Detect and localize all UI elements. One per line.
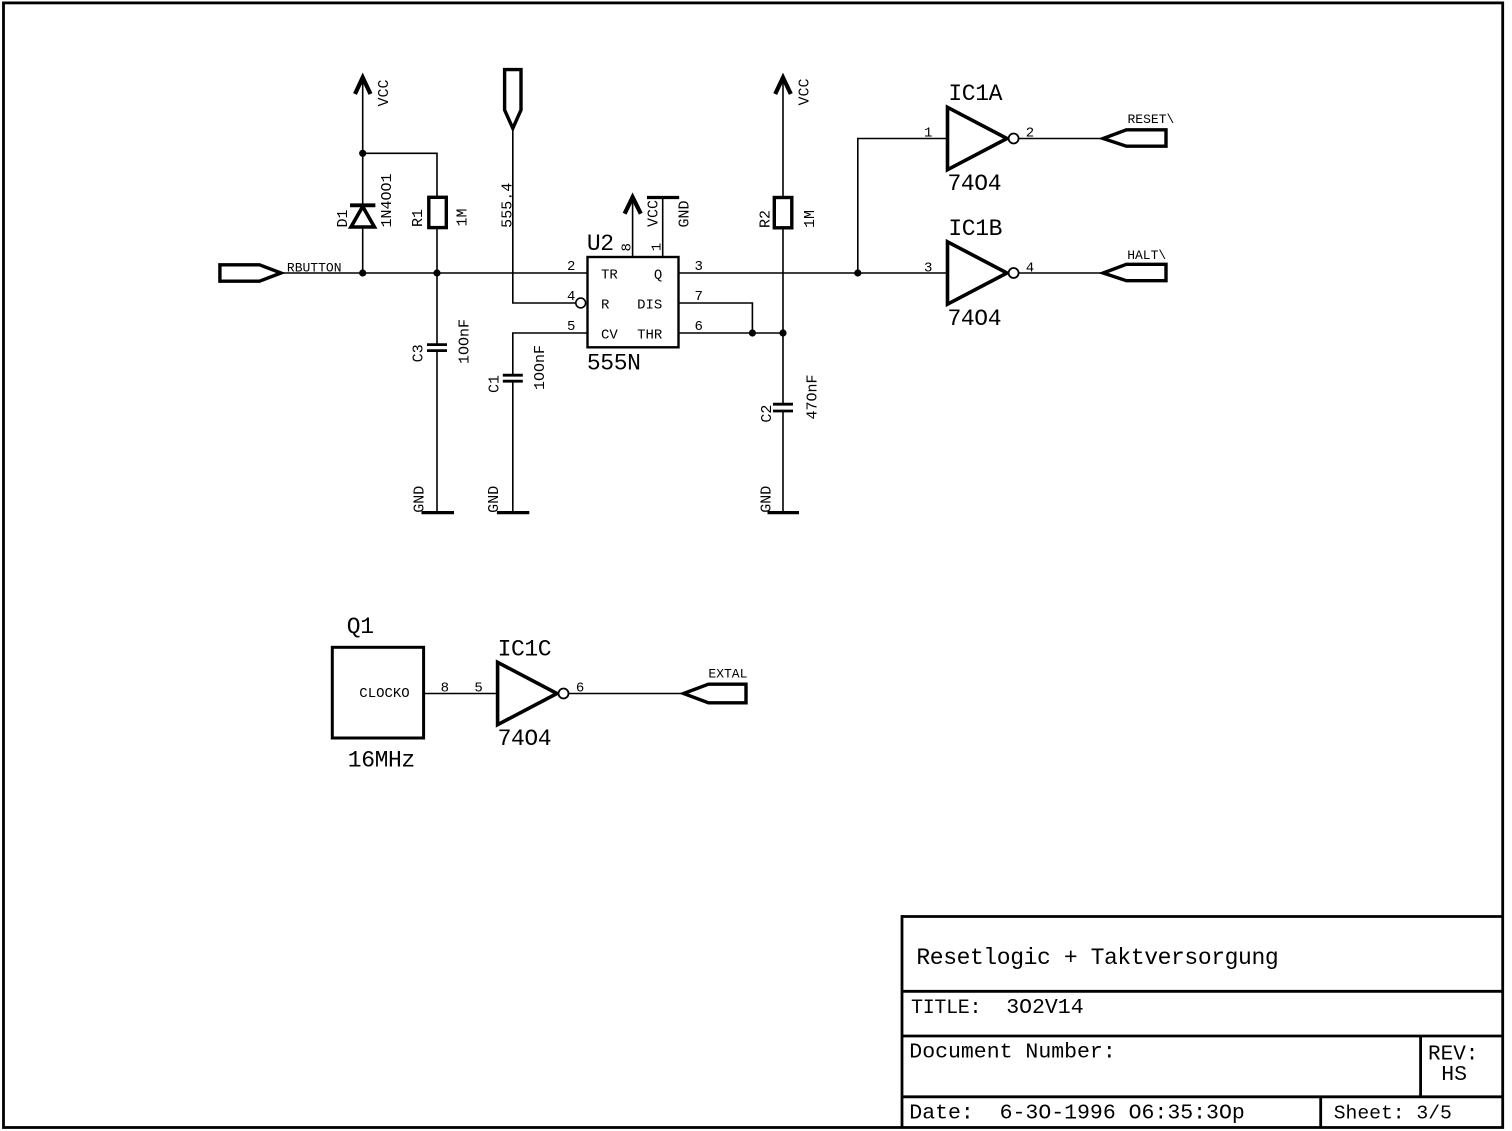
wire main row RBUTTON to U2 TR xyxy=(281,272,588,274)
wire R2 bottom through Q row to C2 xyxy=(782,228,784,404)
wire Q output row xyxy=(679,272,948,274)
svg-text:1OOnF: 1OOnF xyxy=(457,319,474,364)
wire IC1A output to RESET port xyxy=(1019,138,1104,140)
svg-text:1OOnF: 1OOnF xyxy=(532,345,549,390)
node junction (752.4,333) xyxy=(749,329,756,336)
power VCC arrow (R2) xyxy=(775,78,791,198)
svg-text:DIS: DIS xyxy=(637,297,662,313)
capacitor C3 xyxy=(427,273,447,512)
node junction (362.7,153.3) xyxy=(359,150,366,157)
svg-text:R2: R2 xyxy=(758,210,775,228)
svg-text:GND: GND xyxy=(676,200,693,227)
svg-text:Q: Q xyxy=(654,268,662,284)
svg-text:R: R xyxy=(601,297,610,313)
ground (C2) xyxy=(768,511,800,514)
svg-text:3: 3 xyxy=(924,260,932,276)
svg-text:2: 2 xyxy=(567,259,575,275)
wire DIS to THR xyxy=(679,303,753,333)
pin 8 wire up xyxy=(632,198,634,258)
svg-text:555.4: 555.4 xyxy=(500,183,517,228)
svg-text:GND: GND xyxy=(758,486,775,513)
ground bar (U2 pin 1) xyxy=(647,196,679,199)
power VCC arrow (left) xyxy=(355,78,371,154)
node junction (362.7,273) xyxy=(359,269,366,276)
svg-text:IC1C: IC1C xyxy=(498,637,552,663)
node junction (783,333) xyxy=(779,329,786,336)
svg-text:TITLE:: TITLE: xyxy=(911,997,981,1020)
wire THR row xyxy=(679,332,784,334)
svg-text:U2: U2 xyxy=(587,231,614,257)
wire 555.4 down to R pin xyxy=(513,128,577,303)
svg-text:TR: TR xyxy=(601,268,618,284)
svg-text:1N4OO1: 1N4OO1 xyxy=(379,173,396,227)
svg-text:C1: C1 xyxy=(486,375,503,393)
inverter IC1A triangle xyxy=(948,107,1008,169)
diode D1 xyxy=(350,205,375,227)
sheet connector 555.4 xyxy=(505,70,521,129)
svg-text:C2: C2 xyxy=(759,405,776,423)
node junction (437,273) xyxy=(433,269,440,276)
svg-text:5: 5 xyxy=(567,319,575,335)
svg-text:Resetlogic + Taktversorgung: Resetlogic + Taktversorgung xyxy=(916,945,1278,971)
wire Q1 to IC1C xyxy=(424,693,498,695)
wire IC1B output to HALT port xyxy=(1019,272,1104,274)
svg-text:VCC: VCC xyxy=(376,79,393,106)
ground (C3) xyxy=(422,511,455,514)
wire VCC node down to D1 xyxy=(362,153,364,205)
svg-text:D1: D1 xyxy=(335,209,352,227)
svg-text:Q1: Q1 xyxy=(347,614,374,640)
svg-text:1M: 1M xyxy=(802,210,819,228)
oscillator Q1 xyxy=(332,647,423,738)
bubble IC1A xyxy=(1009,134,1019,144)
wire R1 bottom to row xyxy=(436,228,438,273)
capacitor C2 xyxy=(773,404,793,512)
svg-text:THR: THR xyxy=(637,327,663,343)
resistor R2 xyxy=(774,198,792,228)
svg-text:IC1A: IC1A xyxy=(948,81,1002,107)
svg-text:HS: HS xyxy=(1441,1063,1467,1087)
svg-text:GND: GND xyxy=(412,486,429,513)
svg-text:1M: 1M xyxy=(455,208,472,226)
port EXTAL xyxy=(684,684,746,703)
svg-text:C3: C3 xyxy=(411,344,428,362)
svg-text:4: 4 xyxy=(1026,260,1034,276)
svg-text:R1: R1 xyxy=(410,209,427,227)
port RBUTTON xyxy=(220,265,281,281)
svg-text:GND: GND xyxy=(486,486,503,513)
svg-text:555N: 555N xyxy=(587,351,641,377)
inverter IC1C triangle xyxy=(498,662,557,724)
power VCC arrow (U2 pin 8) xyxy=(625,197,641,214)
inverter bubble on R pin 4 xyxy=(576,298,586,308)
svg-text:CLOCKO: CLOCKO xyxy=(359,686,409,702)
svg-text:74O4: 74O4 xyxy=(948,306,1002,332)
svg-text:Document Number:: Document Number: xyxy=(909,1040,1115,1064)
resistor R1 xyxy=(429,197,447,227)
inverter IC1B triangle xyxy=(948,242,1008,304)
svg-text:IC1B: IC1B xyxy=(948,216,1002,242)
port HALT xyxy=(1103,264,1166,280)
op-amp U2 body xyxy=(588,257,679,347)
ground (C1) xyxy=(497,511,529,514)
svg-text:47OnF: 47OnF xyxy=(805,374,822,419)
wire IC1C output to EXTAL port xyxy=(569,693,684,695)
svg-text:5: 5 xyxy=(474,680,482,696)
bubble IC1C xyxy=(559,689,569,699)
svg-text:RESET\: RESET\ xyxy=(1128,112,1175,127)
node junction (857.8,273) xyxy=(854,269,861,276)
svg-text:1: 1 xyxy=(650,243,666,251)
wire branch up to IC1A input xyxy=(858,139,948,274)
svg-text:VCC: VCC xyxy=(646,200,663,227)
bubble IC1B xyxy=(1009,268,1019,278)
wire CV pin to C1 xyxy=(513,333,588,375)
svg-text:4: 4 xyxy=(567,289,575,305)
svg-text:8: 8 xyxy=(441,680,449,696)
svg-text:VCC: VCC xyxy=(797,78,814,105)
svg-text:8: 8 xyxy=(620,243,636,251)
svg-text:Date: 6-3O-1996 O6:35:3Op: Date: 6-3O-1996 O6:35:3Op xyxy=(909,1102,1244,1126)
svg-text:1: 1 xyxy=(924,126,932,142)
svg-text:16MHz: 16MHz xyxy=(348,748,415,774)
svg-text:Sheet: 3/5: Sheet: 3/5 xyxy=(1334,1103,1452,1125)
capacitor C1 xyxy=(503,375,523,512)
svg-text:3O2V14: 3O2V14 xyxy=(1006,996,1083,1020)
svg-text:74O4: 74O4 xyxy=(948,171,1002,197)
pin 1 wire up xyxy=(662,198,664,258)
svg-text:74O4: 74O4 xyxy=(498,726,552,752)
title block outline xyxy=(902,915,1502,918)
svg-text:HALT\: HALT\ xyxy=(1127,248,1166,263)
svg-text:EXTAL: EXTAL xyxy=(708,667,747,682)
svg-text:CV: CV xyxy=(601,327,618,343)
wire junction to R1 top xyxy=(363,153,437,197)
wire D1 anode to RBUTTON row xyxy=(362,227,364,273)
port RESET xyxy=(1103,130,1166,146)
